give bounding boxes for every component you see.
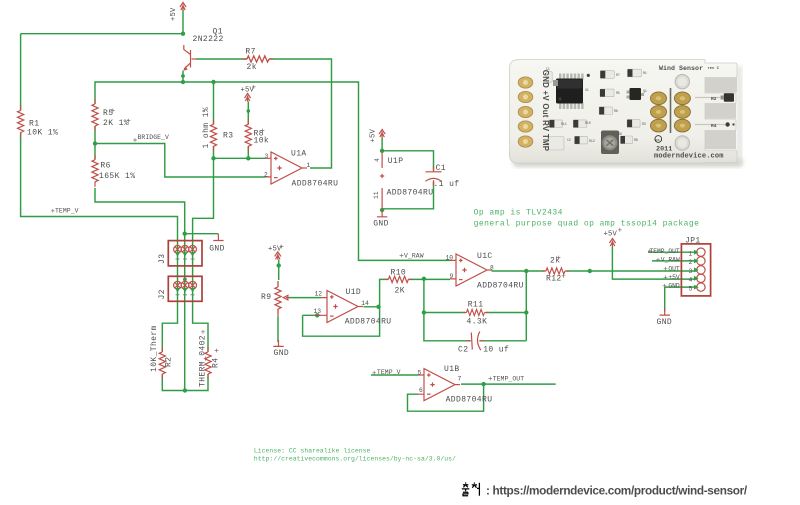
- svg-text:C2: C2: [458, 346, 468, 355]
- svg-text:1 ohm 1%: 1 ohm 1%: [202, 107, 211, 149]
- svg-text:4: 4: [689, 277, 693, 284]
- svg-text:C1: C1: [546, 67, 550, 71]
- svg-text:GND: GND: [657, 318, 673, 327]
- svg-text:R12: R12: [589, 139, 595, 143]
- svg-text:C2: C2: [567, 138, 571, 142]
- svg-text:R6: R6: [614, 109, 618, 113]
- svg-text:2K: 2K: [395, 287, 405, 296]
- svg-text:R10: R10: [585, 121, 591, 125]
- svg-text:GND: GND: [373, 220, 389, 229]
- svg-text:J3: J3: [158, 254, 167, 264]
- svg-text:ADD8704RU: ADD8704RU: [345, 317, 392, 326]
- svg-text:J2: J2: [158, 289, 167, 299]
- svg-text:+5V: +5V: [668, 274, 680, 281]
- svg-text:2N2222: 2N2222: [193, 35, 224, 44]
- svg-text:6: 6: [419, 387, 423, 394]
- svg-text:1: 1: [307, 162, 311, 169]
- svg-text:TEMP_OUT: TEMP_OUT: [649, 248, 679, 255]
- svg-text:12: 12: [315, 291, 323, 298]
- svg-text:OUT: OUT: [668, 266, 680, 273]
- svg-text:5: 5: [418, 370, 422, 377]
- svg-text:10K 1%: 10K 1%: [27, 129, 58, 138]
- svg-text:rev C: rev C: [708, 66, 720, 71]
- svg-text:R1: R1: [643, 71, 647, 75]
- svg-text:.1 uf: .1 uf: [434, 180, 460, 189]
- svg-text:10K_Therm: 10K_Therm: [150, 325, 159, 372]
- svg-text:1: 1: [689, 250, 693, 257]
- svg-text:TEMP_V: TEMP_V: [55, 208, 79, 215]
- svg-text:7: 7: [458, 376, 462, 383]
- svg-text:R9: R9: [261, 293, 271, 302]
- svg-text:10 uf: 10 uf: [483, 346, 509, 355]
- svg-text:GND: GND: [668, 283, 680, 290]
- svg-text:THERM_0402: THERM_0402: [199, 335, 208, 387]
- svg-text:R4: R4: [711, 123, 717, 129]
- svg-text:R11: R11: [561, 122, 567, 126]
- svg-text:+5V: +5V: [370, 128, 378, 142]
- svg-text:2K 1%: 2K 1%: [103, 119, 129, 128]
- svg-text:+5V: +5V: [241, 87, 255, 95]
- svg-text:BRIDGE_V: BRIDGE_V: [138, 134, 170, 141]
- svg-text:U1A: U1A: [291, 150, 307, 159]
- svg-text:ADD8704RU: ADD8704RU: [387, 189, 434, 198]
- svg-text:5: 5: [689, 285, 693, 292]
- svg-text:TEMP_V: TEMP_V: [377, 369, 401, 376]
- svg-text:U1D: U1D: [346, 288, 362, 297]
- svg-text:4: 4: [374, 158, 381, 162]
- svg-text:JP1: JP1: [685, 237, 701, 246]
- svg-text:10: 10: [446, 255, 454, 262]
- svg-text:R3: R3: [223, 132, 233, 141]
- svg-text:Q1: Q1: [643, 89, 647, 93]
- svg-text:License: CC sharealike license: License: CC sharealike license: [254, 448, 371, 455]
- svg-text:11: 11: [373, 191, 380, 199]
- svg-text:2: 2: [689, 259, 693, 266]
- svg-text:R9: R9: [618, 132, 622, 136]
- svg-text:R1: R1: [29, 120, 39, 129]
- svg-text:3: 3: [265, 153, 269, 160]
- svg-text:ADD8704RU: ADD8704RU: [292, 180, 339, 189]
- svg-text:U1P: U1P: [388, 157, 404, 166]
- svg-text:C1: C1: [436, 164, 446, 173]
- svg-text:Op amp is TLV2434: Op amp is TLV2434: [474, 209, 563, 218]
- svg-text:R10: R10: [391, 269, 407, 278]
- svg-text:V_RAW: V_RAW: [661, 257, 680, 264]
- svg-text:R5: R5: [616, 91, 620, 95]
- svg-text:3: 3: [689, 268, 693, 275]
- svg-text:V_RAW: V_RAW: [404, 253, 424, 260]
- svg-text:R2: R2: [711, 96, 717, 102]
- svg-text:GND: GND: [209, 244, 225, 253]
- svg-text:U1: U1: [585, 88, 589, 92]
- svg-text:13: 13: [314, 308, 322, 315]
- svg-text:ADD8704RU: ADD8704RU: [446, 396, 493, 405]
- svg-text:4.3K: 4.3K: [467, 318, 488, 327]
- svg-text:R6: R6: [100, 162, 110, 171]
- svg-text:U1B: U1B: [444, 365, 460, 374]
- svg-text:10k: 10k: [254, 137, 270, 146]
- svg-text:ADD8704RU: ADD8704RU: [477, 282, 524, 291]
- svg-text:U1C: U1C: [477, 252, 493, 261]
- svg-text:14: 14: [361, 300, 369, 307]
- svg-text:http://creativecommons.org/lic: http://creativecommons.org/licenses/by-n…: [254, 455, 456, 462]
- svg-text:2011: 2011: [656, 146, 672, 154]
- svg-text:2: 2: [264, 171, 268, 178]
- svg-text:R4: R4: [212, 358, 221, 368]
- svg-text:165K 1%: 165K 1%: [99, 172, 135, 181]
- svg-text:moderndevice.com: moderndevice.com: [654, 153, 724, 161]
- svg-text:cc: cc: [655, 139, 660, 143]
- svg-text:R7: R7: [245, 48, 255, 57]
- svg-text:8: 8: [490, 265, 494, 272]
- svg-text:GND: GND: [274, 349, 290, 358]
- svg-text:R8: R8: [634, 138, 638, 142]
- svg-text:Wind Sensor: Wind Sensor: [659, 65, 703, 72]
- svg-text:GND +V Out RV TMP: GND +V Out RV TMP: [541, 70, 550, 151]
- svg-text:R12: R12: [546, 275, 562, 284]
- svg-text:+5V: +5V: [268, 246, 282, 254]
- svg-text:9: 9: [450, 273, 454, 280]
- svg-text:+5V: +5V: [604, 231, 618, 239]
- svg-text:R7: R7: [616, 73, 620, 77]
- svg-text:general purpose quad op amp ts: general purpose quad op amp tssop14 pack…: [474, 220, 700, 229]
- svg-text:+5V: +5V: [170, 7, 178, 21]
- svg-text:R3: R3: [642, 122, 646, 126]
- svg-text:2k: 2k: [247, 63, 257, 72]
- svg-text:R11: R11: [468, 301, 484, 310]
- svg-text:R2: R2: [165, 357, 174, 367]
- svg-text:TEMP_OUT: TEMP_OUT: [493, 375, 525, 382]
- svg-text:: https://moderndevice.com/pro: : https://moderndevice.com/product/wind-…: [486, 483, 748, 497]
